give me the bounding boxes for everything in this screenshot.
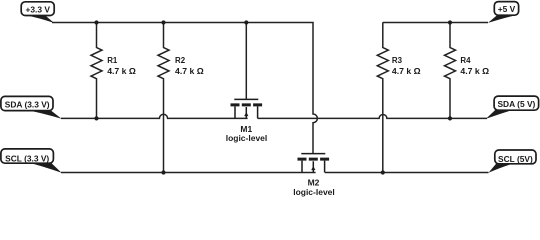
junction dot: R4 top on +5 V rail	[448, 20, 452, 24]
svg-text:SDA (5 V): SDA (5 V)	[497, 99, 535, 109]
wire: SDA low-voltage segment (hop over R2 lead at x=163.5)	[61, 114, 248, 118]
label R3 value	[392, 56, 421, 76]
net flag SDA (3.3 V)	[1, 96, 62, 118]
junction dot: R3 bottom on SCL (5 V) line	[381, 170, 385, 174]
power net flag +5 V	[488, 2, 519, 23]
junction dot: R1 top on +3.3 V rail	[94, 20, 98, 24]
svg-text:4.7 k Ω: 4.7 k Ω	[107, 66, 136, 76]
wire: SDA high-voltage segment (hop over R3 lead at x=383)	[258, 114, 487, 118]
svg-text:logic-level: logic-level	[226, 133, 268, 143]
label R4 value	[460, 56, 489, 76]
label M1 value	[226, 124, 268, 143]
svg-text:R4: R4	[460, 56, 471, 65]
svg-text:+5 V: +5 V	[498, 4, 516, 14]
label M2 value	[293, 178, 335, 197]
label R2 value	[175, 56, 204, 76]
junction dot: R2 bottom on SCL (3.3 V) line	[161, 170, 165, 174]
wire: SCL low-voltage segment	[61, 172, 316, 174]
net flag SDA (5 V)	[486, 96, 539, 119]
label R1 value	[107, 56, 136, 76]
svg-text:SCL (3.3 V): SCL (3.3 V)	[5, 154, 49, 164]
junction dot: R2 top on +3.3 V rail	[161, 20, 165, 24]
svg-text:SDA (3.3 V): SDA (3.3 V)	[5, 100, 50, 110]
transistor M1 (N-MOSFET on SDA line)	[231, 99, 263, 118]
resistor R4	[445, 23, 456, 119]
svg-text:+3.3 V: +3.3 V	[25, 4, 50, 14]
svg-text:4.7 k Ω: 4.7 k Ω	[175, 66, 204, 76]
resistor R2	[158, 23, 169, 173]
svg-text:R2: R2	[175, 56, 186, 65]
resistor R3	[377, 23, 388, 173]
wire: M1 gate tap from +3.3 V rail	[245, 23, 247, 100]
wire: +3.3 V rail (top left, turns down at x=313 toward M2 gate)	[52, 23, 317, 154]
svg-text:R3: R3	[392, 56, 403, 65]
net flag SCL (5V)	[489, 150, 537, 173]
net flag SCL (3.3 V)	[1, 149, 62, 173]
wire: SCL high-voltage segment	[325, 172, 489, 174]
svg-text:R1: R1	[107, 56, 118, 65]
svg-text:4.7 k Ω: 4.7 k Ω	[392, 66, 421, 76]
power net flag +3.3 V	[21, 2, 54, 23]
resistor R1	[91, 23, 102, 119]
svg-text:4.7 k Ω: 4.7 k Ω	[460, 66, 489, 76]
wire: +5 V rail (top right)	[383, 22, 488, 24]
junction dot: R1 bottom on SDA (3.3 V) line	[94, 116, 98, 120]
transistor M2 (N-MOSFET on SCL line)	[298, 154, 330, 173]
junction dot: R4 bottom on SDA (5 V) line	[448, 116, 452, 120]
svg-text:SCL (5V): SCL (5V)	[498, 154, 533, 164]
svg-text:logic-level: logic-level	[293, 187, 335, 197]
junction dot: M1 gate tap on +3.3 V rail	[244, 20, 248, 24]
